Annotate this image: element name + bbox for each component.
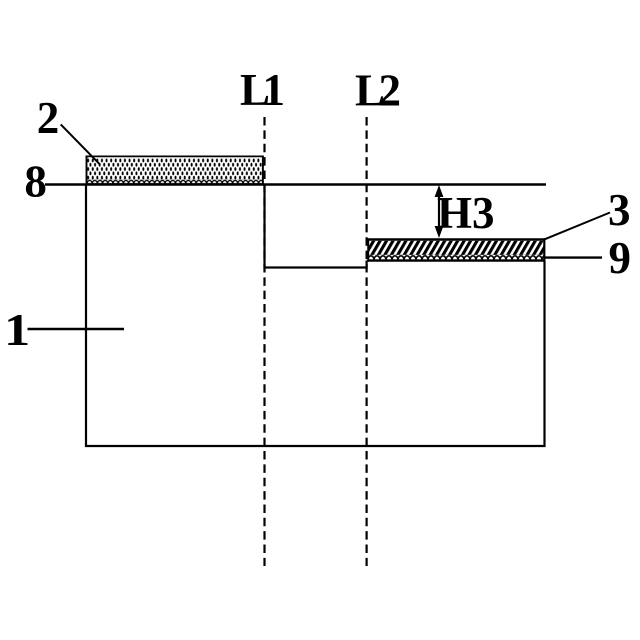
layer 3 thick top line (367, 238, 544, 241)
svg-text:L1: L1 (240, 65, 285, 115)
substrate body 1 outline (86, 184, 545, 446)
leader line for 9 (545, 256, 603, 258)
leader line for 2 (61, 124, 100, 163)
layer 3 right edge (543, 238, 545, 261)
svg-text:3: 3 (608, 185, 631, 235)
svg-text:1: 1 (4, 305, 30, 355)
dashed cut line L1 (263, 117, 265, 566)
dimension arrow H3 (435, 185, 444, 238)
layer 2 border: left (86, 156, 88, 185)
layer 2 border: right (262, 156, 264, 185)
dashed cut line L2 (366, 117, 368, 566)
layer 3 bottom line (367, 260, 544, 262)
layer 3 hatched body (368, 241, 544, 255)
layer 8 scallop band under layer 2 (87, 179, 263, 183)
svg-text:2: 2 (37, 93, 60, 143)
layer 9 scallop band (368, 255, 544, 260)
layer 2 dotted body (87, 158, 263, 180)
svg-text:H3: H3 (437, 188, 495, 238)
leader line for 3 (545, 213, 610, 240)
layer 2 border: top (86, 155, 264, 157)
svg-text:9: 9 (609, 233, 632, 283)
reference line 8 (horizontal) (45, 183, 546, 185)
layer 3 left edge (367, 238, 369, 261)
svg-text:8: 8 (24, 157, 47, 207)
svg-text:L2: L2 (355, 66, 401, 116)
leader line for 1 (28, 328, 125, 330)
